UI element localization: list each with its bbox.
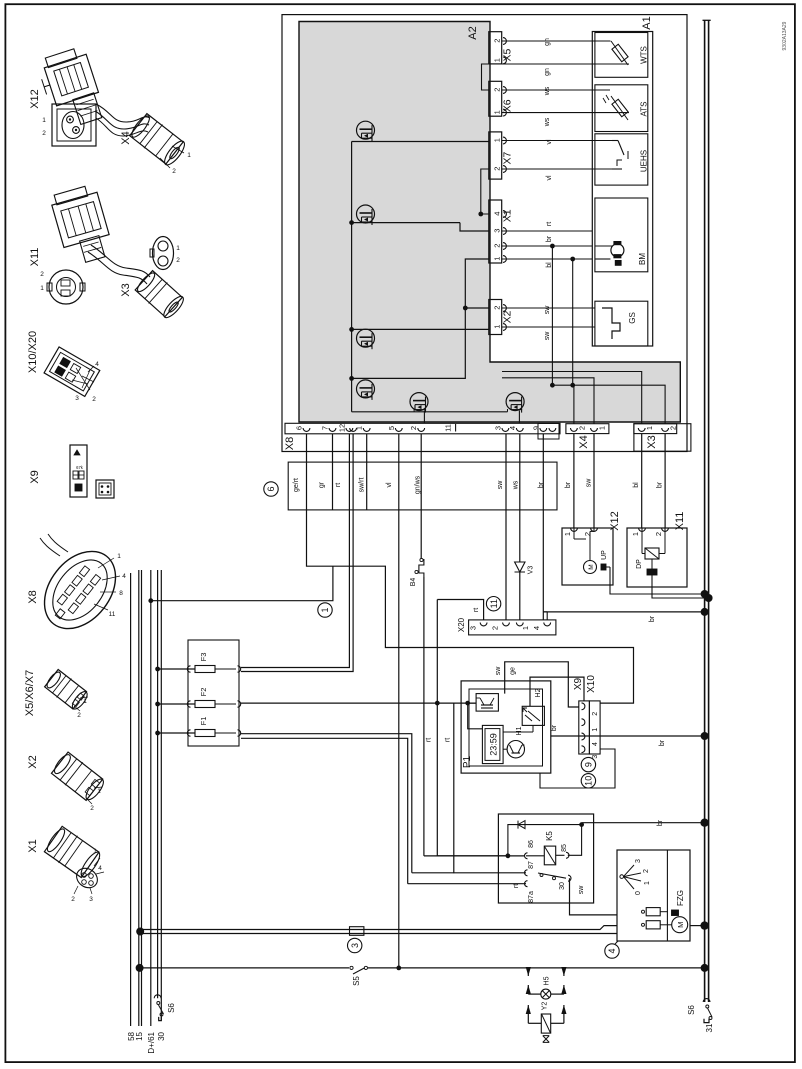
svg-text:1: 1 xyxy=(598,426,607,430)
connector X11 picture xyxy=(40,184,109,304)
legend band box xyxy=(288,462,557,510)
svg-text:FZG: FZG xyxy=(676,890,685,906)
connector X8 pin 12 xyxy=(337,424,352,432)
label X9 picture xyxy=(29,470,41,483)
label X2 xyxy=(502,310,514,323)
connector X1 box xyxy=(489,200,507,263)
svg-text:V3: V3 xyxy=(528,566,535,575)
label GS xyxy=(628,312,637,324)
svg-text:rt: rt xyxy=(426,738,433,742)
schematic outer box xyxy=(282,15,687,452)
connector X8 pin x xyxy=(350,428,357,431)
svg-text:UEHS: UEHS xyxy=(640,150,649,172)
svg-text:vl: vl xyxy=(386,482,393,488)
svg-text:X11: X11 xyxy=(674,512,686,531)
wire 87 drop xyxy=(412,872,526,874)
svg-text:2: 2 xyxy=(643,869,650,873)
svg-text:2: 2 xyxy=(583,532,592,536)
label UEHS xyxy=(640,150,649,172)
svg-text:S6: S6 xyxy=(167,1003,176,1013)
connector X20 pin 3 xyxy=(469,623,488,631)
wire br X9 to ground bus xyxy=(551,724,709,746)
connector X8 pin x xyxy=(549,428,556,431)
svg-text:rt: rt xyxy=(335,483,342,487)
transistor H1 xyxy=(507,726,524,757)
svg-text:sw: sw xyxy=(497,480,504,490)
label X3 xyxy=(646,435,658,448)
connector X8 pin 6 xyxy=(295,426,310,431)
wire X12 pins xyxy=(574,528,594,539)
wire 58 to note 1 xyxy=(148,566,332,603)
sensor WTS box xyxy=(595,33,648,78)
svg-text:1: 1 xyxy=(492,138,501,142)
svg-text:F1: F1 xyxy=(199,717,208,726)
svg-text:br: br xyxy=(551,724,558,731)
starter motor M in FZG xyxy=(660,910,688,933)
label X1 picture xyxy=(27,839,39,852)
connector X8 pin 2 xyxy=(409,426,424,431)
wire F2 output xyxy=(241,701,476,706)
label A2 xyxy=(467,26,479,39)
svg-text:X5/X6/X7: X5/X6/X7 xyxy=(24,670,36,716)
label X8 picture xyxy=(27,590,39,603)
svg-text:br: br xyxy=(546,235,553,242)
svg-text:M: M xyxy=(588,564,595,569)
wire vl X7.2-UEHS xyxy=(502,169,593,181)
svg-text:4: 4 xyxy=(592,742,599,746)
label ATS xyxy=(640,102,649,117)
relay K5 contact 87 xyxy=(525,861,536,876)
speed sensor GS symbol xyxy=(602,308,620,339)
svg-text:1: 1 xyxy=(492,58,501,62)
connector X11 box xyxy=(627,528,687,587)
svg-text:87: 87 xyxy=(528,861,535,869)
svg-text:sw: sw xyxy=(544,305,551,315)
svg-text:2: 2 xyxy=(669,426,678,430)
label WTS xyxy=(640,46,649,64)
label A1 xyxy=(641,16,653,29)
fuse F1 xyxy=(155,717,241,737)
svg-text:1: 1 xyxy=(117,553,121,560)
svg-text:1: 1 xyxy=(40,285,44,292)
svg-text:7: 7 xyxy=(321,426,330,430)
svg-text:30: 30 xyxy=(157,1031,166,1040)
svg-text:4: 4 xyxy=(122,573,126,580)
svg-text:DP: DP xyxy=(636,559,643,569)
svg-text:2: 2 xyxy=(77,712,81,719)
legend label rt xyxy=(335,483,342,487)
svg-text:1: 1 xyxy=(492,110,501,114)
ground bus 31 double line xyxy=(703,20,711,1002)
wire sw X8.3-X20.2 xyxy=(505,434,507,620)
wire br X20.4 to ground bus xyxy=(543,608,708,622)
wire sw X2.2-GS xyxy=(502,305,595,315)
note circle 3 xyxy=(348,938,362,952)
wire br X3.2-X11.2 xyxy=(657,434,666,528)
svg-text:1: 1 xyxy=(521,626,530,630)
svg-text:gn/ws: gn/ws xyxy=(415,475,422,494)
label X7 xyxy=(502,152,514,165)
connector X12 box xyxy=(562,528,613,585)
wire to X3.2 xyxy=(594,385,665,424)
wire sw X2.1-GS xyxy=(502,327,595,340)
svg-text:6: 6 xyxy=(266,486,276,491)
svg-text:H5: H5 xyxy=(544,976,551,985)
wire X12 ground xyxy=(606,567,709,598)
hour meter display box xyxy=(482,725,503,763)
connector X2 box xyxy=(489,300,507,335)
svg-text:2: 2 xyxy=(71,896,75,903)
svg-text:4: 4 xyxy=(508,426,517,430)
svg-text:A1: A1 xyxy=(641,16,653,29)
transistor T6 xyxy=(506,393,524,424)
supply rail 15b xyxy=(141,570,143,1026)
connector X11 pin 2 xyxy=(654,528,668,536)
svg-text:X3: X3 xyxy=(646,435,658,448)
connector X3 pin 1 xyxy=(638,426,654,431)
svg-text:85: 85 xyxy=(561,844,568,852)
connector X4 picture xyxy=(128,112,191,175)
note circle 10 xyxy=(581,774,595,788)
svg-text:br: br xyxy=(538,481,545,488)
svg-text:X8: X8 xyxy=(27,590,39,603)
connector X3 pin 2 xyxy=(662,426,678,431)
svg-text:8: 8 xyxy=(119,590,123,597)
motor BM symbol xyxy=(595,241,624,265)
sensor ATS box xyxy=(595,85,648,132)
svg-text:1: 1 xyxy=(83,698,87,705)
svg-text:4: 4 xyxy=(492,212,501,216)
wire gn/ws X8.2 xyxy=(421,434,524,856)
svg-text:br: br xyxy=(657,819,664,826)
wire X1.2 branch xyxy=(550,244,555,386)
wire X1.1 to T4 node xyxy=(465,259,489,308)
svg-text:sw: sw xyxy=(544,331,551,341)
svg-text:S5: S5 xyxy=(352,976,361,986)
svg-text:X6: X6 xyxy=(502,99,514,112)
switch S5 xyxy=(349,964,368,986)
connector X4 pin 1 xyxy=(591,426,607,431)
wire F1 pair xyxy=(241,734,452,884)
fuse F3 xyxy=(155,653,241,673)
wire sw X4.1-X12.2 xyxy=(586,434,595,528)
wire gn X5.1-WTS xyxy=(502,64,593,76)
svg-text:1: 1 xyxy=(563,532,572,536)
supply rail D+/61 xyxy=(147,570,156,1054)
svg-text:2: 2 xyxy=(492,39,501,43)
wire X11 ground xyxy=(652,575,713,602)
engine unit A1 box xyxy=(592,32,652,347)
svg-text:UP: UP xyxy=(601,550,608,560)
svg-text:11: 11 xyxy=(489,599,499,608)
note circle 11 xyxy=(486,597,500,611)
label X10/X20 picture xyxy=(27,331,39,373)
svg-text:23:59: 23:59 xyxy=(489,733,499,756)
svg-text:sw: sw xyxy=(578,885,585,895)
pressure switch B4 xyxy=(410,558,424,586)
svg-text:1: 1 xyxy=(492,257,501,261)
transistor T1 xyxy=(352,121,489,141)
svg-text:4: 4 xyxy=(98,865,102,872)
wire rt lineB xyxy=(453,703,455,873)
svg-text:2: 2 xyxy=(578,426,587,430)
svg-text:WTS: WTS xyxy=(640,46,649,64)
wire S5 ground line xyxy=(136,964,709,972)
svg-text:M: M xyxy=(676,922,685,928)
connector X8 pin 5 xyxy=(387,426,402,431)
svg-text:X8: X8 xyxy=(284,437,296,450)
relay K5 box xyxy=(498,814,593,903)
svg-text:rt: rt xyxy=(473,608,480,612)
connector X5 box xyxy=(489,32,507,64)
connector X12 pin 1 xyxy=(563,528,577,536)
svg-text:sw: sw xyxy=(495,666,502,676)
wire pair 15 to FZG xyxy=(136,926,617,936)
legend label vl xyxy=(386,482,393,488)
svg-text:S6: S6 xyxy=(687,1005,696,1015)
note circle 1 xyxy=(318,603,332,617)
wire rt lineA xyxy=(437,600,508,856)
svg-text:rt: rt xyxy=(513,884,520,888)
svg-text:2: 2 xyxy=(42,130,46,137)
shutoff valve DP in X11 xyxy=(636,548,659,575)
svg-text:1: 1 xyxy=(492,325,501,329)
svg-text:X5: X5 xyxy=(502,49,514,62)
svg-text:A2: A2 xyxy=(467,26,479,39)
transistor T3 xyxy=(349,327,489,349)
svg-text:15: 15 xyxy=(135,1031,144,1040)
svg-text:87a: 87a xyxy=(528,891,535,903)
svg-text:2: 2 xyxy=(654,532,663,536)
label X8 xyxy=(284,437,296,450)
wire 87a drop xyxy=(408,883,526,885)
legend label sw xyxy=(497,480,504,490)
svg-text:bl: bl xyxy=(633,482,640,488)
legend label br xyxy=(538,481,545,488)
svg-text:12: 12 xyxy=(337,424,346,432)
fuse box F1-F3 xyxy=(188,640,239,746)
svg-text:1: 1 xyxy=(645,426,654,430)
connector X8 pin 3 xyxy=(493,426,508,431)
connector strip X4 box xyxy=(566,424,609,434)
supply rail 15 xyxy=(135,570,144,1041)
supply rail 30b xyxy=(157,570,166,1041)
wire sw/rt X8.1 xyxy=(366,434,368,510)
connector X9/X10 pin 1 xyxy=(582,719,600,732)
svg-text:rt: rt xyxy=(445,738,452,742)
connector X8 pins 9-10 sub-box xyxy=(538,424,559,440)
connector X20 pin 2 xyxy=(491,623,510,631)
connector strip X3 box xyxy=(634,424,677,434)
svg-text:F3: F3 xyxy=(199,653,208,662)
switch UEHS symbol xyxy=(592,141,628,170)
svg-text:3: 3 xyxy=(469,626,478,630)
wire FZG M to ground xyxy=(690,921,709,929)
label X5/X6/X7 picture xyxy=(24,670,36,716)
svg-text:X2: X2 xyxy=(27,755,39,768)
wire ws X8.4-X20.1 with V3 xyxy=(519,434,521,620)
wire P1 internal xyxy=(468,703,533,749)
svg-text:31: 31 xyxy=(705,1023,714,1032)
supply rail 30a xyxy=(157,570,159,998)
speed sensor GS box xyxy=(595,301,648,346)
label X12 picture xyxy=(29,89,41,109)
wire gr X8.7 xyxy=(332,434,334,510)
svg-text:2: 2 xyxy=(492,306,501,310)
svg-text:1: 1 xyxy=(42,117,46,124)
label K5 xyxy=(545,831,554,841)
note circle 4 xyxy=(605,941,619,958)
connector X8 pin 1 xyxy=(355,426,370,431)
svg-text:X9: X9 xyxy=(573,677,584,690)
wire br X1.2-BM xyxy=(502,235,593,246)
wire rt to X20.3 xyxy=(473,608,480,612)
svg-text:gn: gn xyxy=(544,68,551,76)
socket oval X11 mate xyxy=(150,237,180,270)
svg-text:2: 2 xyxy=(492,244,501,248)
label X4 xyxy=(578,435,590,448)
connector X8 pin 9 xyxy=(531,426,546,431)
connector X8 pin 7 xyxy=(321,426,336,431)
wire K5 30 to FZG xyxy=(570,878,618,915)
svg-text:F2: F2 xyxy=(199,688,208,697)
svg-text:9: 9 xyxy=(584,762,594,767)
connector X9/X10 pin 4 xyxy=(582,733,600,746)
connector X8 picture xyxy=(30,534,130,642)
legend label sw/rt xyxy=(359,478,366,493)
svg-text:2: 2 xyxy=(592,712,599,716)
svg-text:3: 3 xyxy=(89,896,93,903)
label X4 picture xyxy=(120,131,132,144)
jumper X5.1-X6.2 xyxy=(482,64,489,90)
label X1 xyxy=(502,209,514,222)
svg-text:4: 4 xyxy=(532,626,541,630)
svg-text:X4: X4 xyxy=(120,131,132,144)
diode V3 xyxy=(515,562,535,574)
connector X6 box xyxy=(489,81,507,116)
connector X3 picture xyxy=(134,269,187,321)
svg-text:X1: X1 xyxy=(27,839,39,852)
svg-text:X10/X20: X10/X20 xyxy=(27,331,39,373)
warning lamp H2 LED xyxy=(523,688,542,721)
label br near K5 ground xyxy=(657,819,664,826)
legend label gr xyxy=(319,481,326,488)
wire vl X8.5 long xyxy=(398,434,400,969)
svg-text:86: 86 xyxy=(528,840,535,848)
svg-text:sw: sw xyxy=(586,478,593,488)
svg-text:67k: 67k xyxy=(76,465,84,470)
svg-text:30: 30 xyxy=(559,882,566,890)
connector X9/X10 pin 2 xyxy=(582,703,600,716)
svg-text:B4: B4 xyxy=(410,578,417,587)
fuel pump BM box xyxy=(595,198,648,272)
svg-text:1: 1 xyxy=(320,607,330,612)
svg-text:2: 2 xyxy=(409,426,418,430)
connector X5/X6/X7 picture xyxy=(43,668,90,719)
svg-text:X4: X4 xyxy=(578,435,590,448)
svg-text:D+/61: D+/61 xyxy=(147,1031,156,1053)
legend label gn/ws xyxy=(415,475,422,494)
svg-text:br: br xyxy=(565,481,572,488)
wire junction riser xyxy=(550,383,594,388)
svg-text:4: 4 xyxy=(95,361,99,368)
transistor T4 xyxy=(349,306,489,400)
supply rail 58 xyxy=(127,573,136,1041)
connector X12 pin 2 xyxy=(583,528,597,536)
connector X20 box xyxy=(469,620,556,635)
svg-text:P1: P1 xyxy=(462,755,473,768)
wire X11 pins xyxy=(642,528,665,554)
connector X20 pin 1 xyxy=(516,623,530,631)
vehicle box FZG xyxy=(617,850,690,941)
connector X12 picture xyxy=(36,46,102,146)
svg-text:rt: rt xyxy=(546,222,553,226)
instrument P1 box xyxy=(461,681,551,773)
connector X9/X10 pin 3 xyxy=(582,746,600,759)
thermistor ATS symbol xyxy=(592,90,629,120)
svg-text:1: 1 xyxy=(93,848,97,855)
relay K5 coil xyxy=(525,840,570,865)
connector X7 box xyxy=(489,132,507,179)
sensor UEHS box xyxy=(595,134,648,185)
wire rt X1.3 xyxy=(502,222,593,231)
contact rect 2 in FZG xyxy=(642,921,661,929)
svg-text:1: 1 xyxy=(644,881,651,885)
wire F3 pair to X8.12 xyxy=(241,434,353,672)
svg-text:X20: X20 xyxy=(457,617,466,632)
svg-text:4: 4 xyxy=(607,948,617,953)
svg-text:3: 3 xyxy=(492,229,501,233)
wire bl X3.1-X11.1 xyxy=(633,434,642,528)
svg-text:gr: gr xyxy=(319,481,326,488)
svg-text:X1: X1 xyxy=(502,209,514,222)
warning lamp H2 box xyxy=(522,706,544,725)
svg-text:X10: X10 xyxy=(586,675,597,693)
wire to X4.2 xyxy=(573,385,575,424)
label BM xyxy=(638,253,647,265)
lamp H5 with plug arrows xyxy=(526,967,567,999)
note circle 9 xyxy=(581,757,595,771)
wire br X4.2-X12.1 xyxy=(565,434,574,528)
wire gn X5.2-WTS xyxy=(502,38,593,46)
svg-text:1: 1 xyxy=(176,245,180,252)
svg-text:1: 1 xyxy=(592,728,599,732)
svg-text:br: br xyxy=(659,739,666,746)
connector X8 pin 4 xyxy=(508,426,523,431)
label P1 xyxy=(462,755,473,768)
svg-text:2: 2 xyxy=(491,626,500,630)
svg-text:2: 2 xyxy=(492,167,501,171)
svg-text:X2: X2 xyxy=(502,310,514,323)
wire to X4.1 xyxy=(502,378,594,424)
svg-text:K5: K5 xyxy=(545,831,554,841)
wire K5 85 to ground xyxy=(568,819,709,856)
connector X11 pin 1 xyxy=(631,528,645,536)
fuse F2 xyxy=(155,688,241,708)
connector strip X8 box xyxy=(285,423,560,434)
svg-text:3: 3 xyxy=(350,943,360,948)
connector X1 picture xyxy=(43,825,104,903)
harness tube X12-X4 xyxy=(95,104,150,136)
svg-text:1: 1 xyxy=(97,788,101,795)
svg-text:6: 6 xyxy=(295,426,304,430)
wire bl X1.1-BM xyxy=(502,259,593,268)
connector X8 pin 11 xyxy=(444,424,456,432)
svg-text:9302A13A29: 9302A13A29 xyxy=(782,21,788,50)
svg-text:br: br xyxy=(649,615,656,622)
driver stage box in P1 xyxy=(476,694,498,712)
svg-text:br: br xyxy=(657,481,664,488)
